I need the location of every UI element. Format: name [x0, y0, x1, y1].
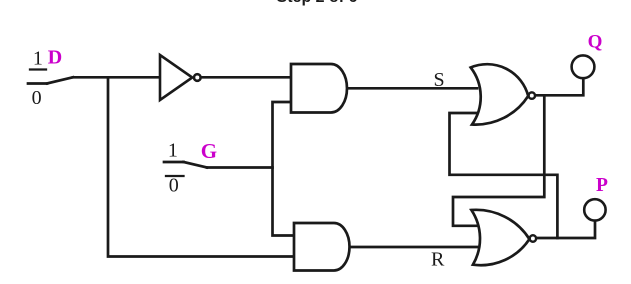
svg-text:D: D	[48, 47, 62, 69]
svg-text:Q: Q	[588, 32, 603, 53]
svg-text:1: 1	[168, 139, 178, 161]
svg-text:G: G	[201, 139, 217, 163]
svg-text:0: 0	[32, 87, 42, 109]
svg-text:Step 2 of 6: Step 2 of 6	[277, 0, 358, 6]
svg-text:0: 0	[169, 175, 179, 197]
svg-text:P: P	[596, 175, 608, 196]
svg-text:R: R	[431, 249, 445, 271]
svg-text:S: S	[433, 69, 444, 91]
svg-text:1: 1	[33, 48, 43, 70]
